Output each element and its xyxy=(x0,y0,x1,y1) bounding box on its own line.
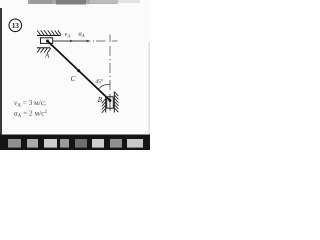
velocity arrow vA xyxy=(53,40,75,43)
svg-text:C: C xyxy=(71,75,76,83)
pivot dot A xyxy=(46,40,49,43)
rod AB xyxy=(48,41,111,101)
slider block B xyxy=(107,97,114,108)
upper guide: hatching below bottom rail xyxy=(37,48,51,52)
upper guide: top rail xyxy=(37,34,61,36)
scan artifact: top gray band xyxy=(28,0,140,5)
vertical guide: hatching left of left rail xyxy=(102,99,106,113)
pivot dot B xyxy=(109,99,112,102)
svg-text:13: 13 xyxy=(12,22,20,30)
upper guide: hatching above top rail xyxy=(37,30,61,35)
scan artifact: left edge bar xyxy=(0,8,2,137)
midpoint dot C xyxy=(77,69,80,72)
svg-text:45°: 45° xyxy=(95,78,103,85)
dash-dot vertical trajectory line of B xyxy=(109,35,110,91)
upper guide: bottom rail xyxy=(37,47,50,49)
acceleration arrow aA xyxy=(73,40,92,43)
45 degree arc xyxy=(98,84,110,89)
dash-dot horizontal trajectory line of A xyxy=(93,40,118,41)
centerline through slider B xyxy=(109,94,111,111)
vertical guide: right rail xyxy=(113,92,115,113)
slider block A xyxy=(41,38,53,44)
svg-text:B: B xyxy=(98,96,103,104)
vertical guide: left rail xyxy=(105,95,107,112)
scan artifact: right edge line xyxy=(149,42,150,135)
problem number circle "13" xyxy=(9,19,22,32)
scan artifact: bottom black band with gray patches xyxy=(0,135,150,151)
vertical guide: hatching right of right rail xyxy=(115,92,119,112)
svg-text:A: A xyxy=(44,52,50,59)
